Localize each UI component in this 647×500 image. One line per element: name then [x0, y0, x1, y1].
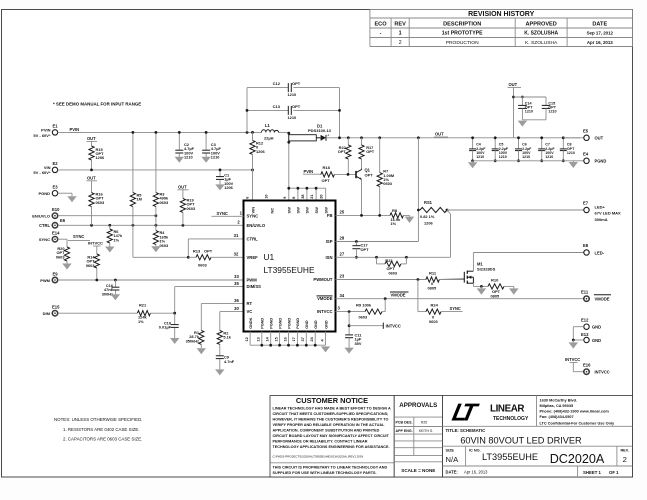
- svg-text:E12: E12: [581, 317, 589, 322]
- svg-text:PWM: PWM: [247, 278, 258, 283]
- capacitor C1: [219, 170, 221, 177]
- svg-text:VIN: VIN: [44, 165, 51, 170]
- ground at R20: [66, 261, 68, 264]
- svg-text:35: 35: [234, 281, 239, 286]
- svg-text:VMODE: VMODE: [317, 296, 333, 301]
- capacitor C17: [355, 240, 358, 243]
- terminal E11 VMODE: [584, 296, 589, 301]
- svg-text:R11: R11: [429, 270, 437, 275]
- svg-text:0603: 0603: [359, 315, 368, 320]
- svg-text:TECHNOLOGY APPLICATIONS ENGINE: TECHNOLOGY APPLICATIONS ENGINEERING FOR …: [273, 445, 390, 449]
- svg-text:ECO: ECO: [374, 21, 387, 27]
- svg-text:20: 20: [320, 194, 324, 198]
- svg-text:5.1k: 5.1k: [223, 335, 231, 340]
- revision history table: [370, 10, 633, 47]
- svg-text:GNDK: GNDK: [249, 317, 253, 328]
- svg-text:1210: 1210: [567, 151, 575, 155]
- svg-text:0603: 0603: [383, 181, 392, 186]
- svg-text:5V - 60V*: 5V - 60V*: [33, 170, 51, 175]
- capacitor C12: [246, 88, 248, 133]
- svg-text:1%: 1%: [138, 319, 144, 324]
- svg-text:0603: 0603: [187, 206, 196, 211]
- svg-text:SIZE: SIZE: [446, 449, 455, 453]
- svg-text:L1: L1: [265, 123, 271, 128]
- resistor R10: [488, 284, 504, 289]
- svg-text:300mA: 300mA: [595, 217, 608, 222]
- capacitor C9: [219, 344, 221, 355]
- svg-text:DIM/SS: DIM/SS: [247, 284, 262, 289]
- wire R3 to R4: [155, 207, 157, 231]
- svg-text:RS1: RS1: [424, 200, 433, 205]
- svg-text:1%: 1%: [114, 237, 120, 242]
- terminal E14 SYNC: [52, 237, 57, 242]
- svg-text:LTC Confidential-For Customer: LTC Confidential-For Customer Use Only: [540, 422, 616, 426]
- ground at R4: [155, 245, 157, 247]
- svg-text:IC NO.: IC NO.: [469, 449, 481, 453]
- inductor L1: [262, 130, 279, 133]
- svg-text:TITLE: SCHEMATIC: TITLE: SCHEMATIC: [446, 428, 486, 433]
- svg-text:LINEAR TECHNOLOGY HAS MADE A B: LINEAR TECHNOLOGY HAS MADE A BEST EFFORT…: [273, 407, 391, 411]
- svg-text:OUT: OUT: [595, 136, 604, 141]
- wire RS1 to E7 LED+: [447, 209, 584, 211]
- ground at U1 pins: [321, 346, 330, 352]
- svg-text:LT3955EUHE: LT3955EUHE: [264, 265, 315, 275]
- svg-text:SUPPLIED FOR USE WITH LINEAR T: SUPPLIED FOR USE WITH LINEAR TECHNOLOGY …: [273, 471, 377, 475]
- svg-text:SHEET 1: SHEET 1: [583, 470, 602, 475]
- svg-text:16: 16: [283, 337, 287, 341]
- svg-text:0805: 0805: [491, 293, 500, 298]
- svg-text:CIRCUIT BOARD LAYOUT MAY SIGNI: CIRCUIT BOARD LAYOUT MAY SIGNIFICANTLY A…: [273, 434, 390, 438]
- wire CTRL pin31: [188, 238, 243, 240]
- svg-text:OPT: OPT: [361, 247, 370, 252]
- ground at C9: [219, 359, 221, 369]
- svg-text:E14: E14: [52, 231, 60, 236]
- terminal E13 GND: [584, 337, 589, 342]
- svg-text:SYNC: SYNC: [217, 211, 228, 216]
- svg-text:APP ENG.: APP ENG.: [396, 429, 413, 433]
- svg-text:0603: 0603: [160, 200, 169, 205]
- terminal E12 GND: [584, 324, 589, 329]
- svg-text:E15: E15: [52, 305, 60, 310]
- resistor R4: [153, 231, 158, 245]
- svg-text:-: -: [380, 31, 382, 37]
- svg-text:C:\PADS-PROJECTS\2020A\LT3955E: C:\PADS-PROJECTS\2020A\LT3955EUHE\SCH\20…: [273, 454, 364, 458]
- svg-text:R18: R18: [323, 165, 331, 170]
- svg-text:21: 21: [310, 194, 314, 198]
- wire EN/UVLO: [58, 215, 156, 217]
- svg-text:LINEAR: LINEAR: [490, 403, 524, 414]
- wire INTVCC pin3 line: [336, 311, 366, 313]
- svg-text:1206: 1206: [224, 185, 233, 190]
- resistor R1: [199, 330, 204, 344]
- svg-text:2: 2: [623, 455, 627, 464]
- svg-text:Fax: (408)434-0507: Fax: (408)434-0507: [540, 415, 574, 419]
- svg-text:DESCRIPTION: DESCRIPTION: [443, 21, 481, 27]
- capacitor C11: [345, 334, 353, 336]
- svg-text:SW: SW: [305, 207, 310, 214]
- wire VC to R2: [220, 311, 244, 313]
- svg-text:DATE:: DATE:: [446, 469, 458, 474]
- ground at C2: [178, 153, 180, 156]
- wire PVIN rail: [58, 131, 262, 133]
- wire OUT rail: [326, 137, 580, 139]
- terminal E15 DIM: [52, 311, 57, 316]
- svg-text:LT3955EUHE: LT3955EUHE: [482, 452, 538, 462]
- svg-text:VMODE: VMODE: [595, 297, 610, 302]
- svg-text:Milpitas, CA 95035: Milpitas, CA 95035: [540, 404, 574, 408]
- svg-text:PWMOUT: PWMOUT: [313, 277, 333, 282]
- svg-text:ISN: ISN: [326, 255, 333, 260]
- svg-text:0603: 0603: [56, 254, 65, 259]
- title block frame: [443, 396, 633, 478]
- wire PWMOUT line: [336, 279, 426, 281]
- svg-text:0603: 0603: [389, 271, 397, 275]
- svg-text:R9 100k: R9 100k: [356, 302, 372, 307]
- wire FB line: [336, 214, 391, 216]
- resistor R8: [390, 213, 403, 218]
- svg-text:PGND: PGND: [278, 318, 282, 329]
- approvals box: [394, 396, 442, 478]
- svg-text:22µH: 22µH: [264, 135, 274, 140]
- svg-text:OUT: OUT: [87, 136, 96, 141]
- svg-text:E11: E11: [581, 289, 589, 294]
- resistor R3: [155, 132, 157, 192]
- svg-text:GND: GND: [305, 320, 309, 329]
- svg-text:2. CAPACITORS ARE 0603 CASE SI: 2. CAPACITORS ARE 0603 CASE SIZE.: [63, 436, 142, 441]
- capacitor C5: [494, 138, 496, 149]
- svg-text:9: 9: [283, 197, 287, 199]
- capacitor C16: [114, 280, 116, 287]
- svg-text:EN/UVLO: EN/UVLO: [247, 223, 266, 228]
- svg-text:DATE: DATE: [592, 21, 607, 27]
- svg-text:OUT: OUT: [178, 185, 187, 190]
- capacitor C2: [178, 132, 180, 150]
- svg-text:PGND: PGND: [287, 318, 291, 329]
- svg-text:GND: GND: [592, 325, 601, 330]
- svg-text:1210: 1210: [522, 155, 530, 159]
- svg-text:APPROVALS: APPROVALS: [399, 402, 437, 409]
- wire RT to R1: [201, 303, 243, 305]
- svg-text:VIN: VIN: [250, 207, 255, 214]
- svg-text:K. SZOLUSHA: K. SZOLUSHA: [525, 40, 558, 46]
- capacitor C7: [541, 138, 543, 149]
- svg-text:C12: C12: [273, 81, 281, 86]
- ground at R1: [200, 344, 202, 348]
- transistor M1 Si2328DS mosfet: [439, 278, 464, 281]
- SW bus to IC top pins: [289, 187, 326, 189]
- svg-text:U1: U1: [264, 252, 275, 262]
- customer notice box: [270, 396, 394, 478]
- svg-text:1210: 1210: [184, 155, 193, 160]
- svg-text:E3: E3: [53, 185, 59, 190]
- svg-text:OUT: OUT: [509, 82, 518, 87]
- ground at C11: [348, 338, 350, 348]
- wire Q1 emitter to FB: [361, 179, 363, 215]
- svg-text:GND: GND: [324, 320, 328, 329]
- ground at E3: [58, 192, 72, 194]
- svg-text:0603: 0603: [86, 263, 95, 268]
- wire C15 bottom to ground: [522, 119, 546, 121]
- svg-text:17: 17: [292, 337, 296, 341]
- capacitor C3: [205, 132, 207, 150]
- svg-text:0603: 0603: [429, 319, 438, 324]
- svg-text:1630 McCarthy Blvd.: 1630 McCarthy Blvd.: [540, 398, 578, 402]
- terminal E3 PGND: [52, 191, 57, 196]
- svg-text:E10: E10: [52, 207, 60, 212]
- wire CTRL to pin 2: [58, 224, 244, 226]
- ground at E12/E13: [572, 340, 574, 342]
- svg-text:SW: SW: [296, 207, 301, 214]
- svg-text:1210: 1210: [288, 115, 297, 120]
- svg-text:OPT: OPT: [338, 149, 347, 154]
- svg-text:1210: 1210: [545, 155, 553, 159]
- svg-text:OPT: OPT: [292, 81, 301, 86]
- ground at C1: [219, 180, 221, 185]
- capacitor C8: [562, 138, 564, 149]
- svg-text:34: 34: [340, 293, 345, 298]
- svg-text:SYNC: SYNC: [450, 306, 461, 311]
- svg-text:4.7nF: 4.7nF: [224, 359, 235, 364]
- svg-text:PGND: PGND: [261, 318, 265, 329]
- svg-text:5V - 60V*: 5V - 60V*: [33, 133, 51, 138]
- svg-text:27: 27: [340, 251, 345, 256]
- svg-text:DC2020A: DC2020A: [550, 452, 605, 466]
- resistor R5: [132, 132, 134, 192]
- ground at R10: [513, 286, 515, 288]
- svg-text:PGND: PGND: [296, 318, 300, 329]
- terminal E6 CTRL: [52, 223, 57, 228]
- svg-text:OPT: OPT: [322, 178, 331, 183]
- wire INTVCC node to flag and C11: [348, 312, 350, 335]
- svg-text:EN/UVLO: EN/UVLO: [32, 213, 50, 218]
- wire VMODE line: [336, 298, 584, 300]
- svg-text:32: 32: [234, 251, 239, 256]
- svg-text:OUT: OUT: [87, 176, 96, 181]
- terminal E2 VIN: [52, 167, 57, 172]
- svg-text:PGND: PGND: [270, 318, 274, 329]
- svg-text:28: 28: [340, 236, 345, 241]
- svg-text:Phone: (408)432-1900 www.li: Phone: (408)432-1900 www.linear.com: [540, 409, 610, 413]
- svg-text:PGND: PGND: [595, 159, 607, 164]
- svg-text:E16: E16: [583, 362, 591, 367]
- svg-text:TECHNOLOGY: TECHNOLOGY: [493, 416, 529, 422]
- terminal E10 EN/UVLO: [52, 213, 57, 218]
- svg-text:R10: R10: [491, 277, 499, 282]
- resistor R7: [379, 138, 381, 173]
- svg-text:VREF: VREF: [247, 255, 259, 260]
- svg-text:1M: 1M: [137, 197, 142, 202]
- svg-text:C13: C13: [273, 104, 281, 109]
- wire ISN line: [336, 256, 451, 258]
- diode D1 PDS3100-13: [288, 132, 290, 188]
- svg-text:NC: NC: [269, 208, 274, 214]
- ground at R6: [109, 243, 111, 247]
- resistor R12: [252, 132, 254, 140]
- svg-text:VC: VC: [247, 309, 253, 314]
- svg-text:10: 10: [265, 194, 269, 198]
- svg-text:6: 6: [246, 197, 250, 199]
- wire OUT to RS1 and ISP: [417, 138, 419, 242]
- svg-text:PVIN: PVIN: [41, 127, 50, 132]
- svg-text:PGND: PGND: [38, 191, 50, 196]
- svg-text:INTVCC: INTVCC: [595, 370, 610, 375]
- svg-text:ISP: ISP: [326, 239, 333, 244]
- wire E12/E13 ground: [573, 326, 584, 328]
- svg-text:GND: GND: [314, 320, 318, 329]
- svg-text:8: 8: [292, 197, 296, 199]
- svg-text:HOWEVER, IT REMAINS THE CUSTOM: HOWEVER, IT REMAINS THE CUSTOMER'S RESPO…: [273, 418, 389, 422]
- svg-text:OUT: OUT: [435, 131, 444, 136]
- svg-text:67V LED MAX: 67V LED MAX: [595, 211, 622, 216]
- wire M1 source: [472, 283, 474, 286]
- transistor Q1: [355, 171, 357, 178]
- svg-text:1206: 1206: [96, 155, 105, 160]
- svg-text:OPT: OPT: [365, 173, 374, 178]
- svg-text:E1: E1: [53, 124, 59, 129]
- svg-text:SYNC: SYNC: [39, 237, 50, 242]
- wire R21 to DIM/SS: [150, 312, 174, 314]
- terminal E9 PWM: [52, 277, 57, 282]
- wire DIM line: [58, 312, 137, 314]
- svg-text:CTRL: CTRL: [247, 236, 259, 241]
- svg-text:1206: 1206: [256, 149, 265, 154]
- resistor R13: [188, 256, 196, 258]
- svg-text:1210: 1210: [288, 92, 297, 97]
- wire R24 riser: [417, 280, 419, 312]
- svg-text:12: 12: [245, 337, 249, 341]
- resistor R9: [365, 309, 382, 314]
- svg-text:Apr 16, 2013: Apr 16, 2013: [464, 469, 488, 474]
- svg-text:RT: RT: [247, 301, 253, 306]
- svg-text:K. SZOLUSHA: K. SZOLUSHA: [524, 31, 558, 37]
- svg-text:33: 33: [234, 274, 239, 279]
- op-amp U1 LT3955EUHE IC body: [244, 201, 336, 332]
- svg-text:1210: 1210: [476, 155, 484, 159]
- svg-text:0.82 1%: 0.82 1%: [420, 214, 435, 219]
- svg-text:PWM: PWM: [40, 278, 50, 283]
- svg-text:PERFORMANCE OR RELIABILITY. C: PERFORMANCE OR RELIABILITY. CONTACT LINE…: [273, 439, 368, 443]
- resistor R22: [347, 138, 349, 145]
- ground at C14/C15: [518, 121, 527, 127]
- svg-text:37: 37: [301, 337, 305, 341]
- svg-text:PVIN: PVIN: [70, 127, 80, 132]
- resistor RS1 current sense: [417, 209, 420, 212]
- svg-text:PDS3100-13: PDS3100-13: [308, 128, 332, 133]
- svg-text:VERIFY PROPER AND RELIABLE OPE: VERIFY PROPER AND RELIABLE OPERATION IN …: [273, 423, 386, 427]
- svg-text:REV: REV: [394, 21, 406, 27]
- svg-text:1st PROTOTYPE: 1st PROTOTYPE: [442, 31, 483, 37]
- svg-text:NOTES: UNLESS OTHERWISE SPECIF: NOTES: UNLESS OTHERWISE SPECIFIED.: [54, 417, 142, 422]
- svg-text:E13: E13: [581, 332, 589, 337]
- svg-text:KEITH S.: KEITH S.: [419, 429, 433, 433]
- svg-text:Sep 17, 2012: Sep 17, 2012: [587, 31, 614, 36]
- svg-text:OPT: OPT: [387, 266, 396, 271]
- svg-text:2: 2: [399, 40, 402, 46]
- svg-text:1210: 1210: [525, 109, 533, 113]
- svg-text:1206: 1206: [424, 221, 433, 226]
- svg-text:1. RESISTORS ARE 0402 CASE SIZ: 1. RESISTORS ARE 0402 CASE SIZE.: [63, 427, 140, 432]
- svg-text:R8: R8: [392, 208, 398, 213]
- svg-text:Si2328DS: Si2328DS: [477, 267, 496, 272]
- svg-text:Apr 16, 2013: Apr 16, 2013: [587, 40, 613, 45]
- svg-text:OF 1: OF 1: [609, 470, 619, 475]
- svg-text:E6: E6: [60, 218, 66, 223]
- svg-text:N/A: N/A: [446, 455, 460, 464]
- ground at R8: [409, 215, 411, 216]
- svg-text:E5: E5: [583, 128, 589, 133]
- resistor R20: [66, 239, 68, 247]
- terminal E5 OUT: [584, 135, 589, 140]
- dots on VIN line: [90, 169, 93, 172]
- dots on PVIN rail: [132, 131, 135, 134]
- svg-text:E7: E7: [583, 201, 589, 206]
- resistor R6: [109, 225, 111, 229]
- ground at M1 source: [480, 286, 482, 288]
- svg-text:0.01µF: 0.01µF: [159, 325, 172, 330]
- svg-text:13: 13: [257, 337, 261, 341]
- terminal E4 PGND: [584, 158, 589, 163]
- svg-text:CUSTOMER NOTICE: CUSTOMER NOTICE: [296, 396, 368, 405]
- wire to E5 OUT: [563, 137, 584, 139]
- resistor R18: [320, 173, 321, 175]
- wire C12/C13 to OUT: [339, 88, 341, 138]
- svg-text:R24: R24: [431, 302, 439, 307]
- svg-text:SW: SW: [324, 207, 329, 214]
- ground at C16: [114, 290, 116, 294]
- svg-text:PRODUCTION: PRODUCTION: [446, 40, 479, 46]
- svg-text:SW: SW: [287, 207, 292, 214]
- capacitor C13: [247, 109, 288, 111]
- svg-text:1210: 1210: [499, 155, 507, 159]
- svg-text:0603: 0603: [96, 200, 105, 205]
- svg-text:38: 38: [301, 194, 305, 198]
- svg-text:CTRL: CTRL: [39, 223, 50, 228]
- resistor R14: [96, 246, 98, 254]
- svg-text:31: 31: [234, 233, 239, 238]
- svg-text:E4: E4: [583, 151, 589, 156]
- svg-text:23: 23: [340, 274, 345, 279]
- resistor R23: [376, 257, 378, 264]
- svg-text:OPT: OPT: [366, 149, 375, 154]
- svg-text:1%: 1%: [391, 221, 397, 226]
- svg-text:30: 30: [234, 306, 239, 311]
- net label SYNC at E14: [58, 238, 67, 240]
- svg-text:35V: 35V: [355, 341, 362, 346]
- svg-text:INTVCC: INTVCC: [88, 241, 103, 246]
- ground at C3: [205, 153, 207, 156]
- svg-text:PCB DES.: PCB DES.: [396, 420, 413, 424]
- wire output cap ground bus: [473, 160, 584, 162]
- ground at E4: [572, 161, 574, 162]
- resistor R11: [426, 277, 440, 282]
- wire R5 column to R13 node: [132, 207, 134, 258]
- wire PWM to pin 33: [58, 279, 244, 281]
- svg-text:INTVCC: INTVCC: [317, 309, 333, 314]
- wire VIN line: [58, 169, 253, 171]
- svg-text:APPROVED: APPROVED: [525, 21, 556, 27]
- svg-text:0603: 0603: [198, 263, 207, 268]
- svg-text:SYNC: SYNC: [73, 234, 84, 239]
- svg-text:INTVCC: INTVCC: [386, 323, 401, 328]
- svg-text:1210: 1210: [211, 155, 220, 160]
- svg-text:R23: R23: [385, 258, 393, 263]
- terminal E8 LED-: [584, 250, 589, 255]
- resistor R21: [137, 311, 150, 316]
- svg-text:VMODE: VMODE: [391, 292, 406, 297]
- U1 bottom ground pins bus: [249, 332, 251, 346]
- svg-text:1: 1: [399, 31, 402, 37]
- svg-text:CIRCUIT THAT MEETS CUSTOMER-SU: CIRCUIT THAT MEETS CUSTOMER-SUPPLIED SPE…: [273, 412, 389, 416]
